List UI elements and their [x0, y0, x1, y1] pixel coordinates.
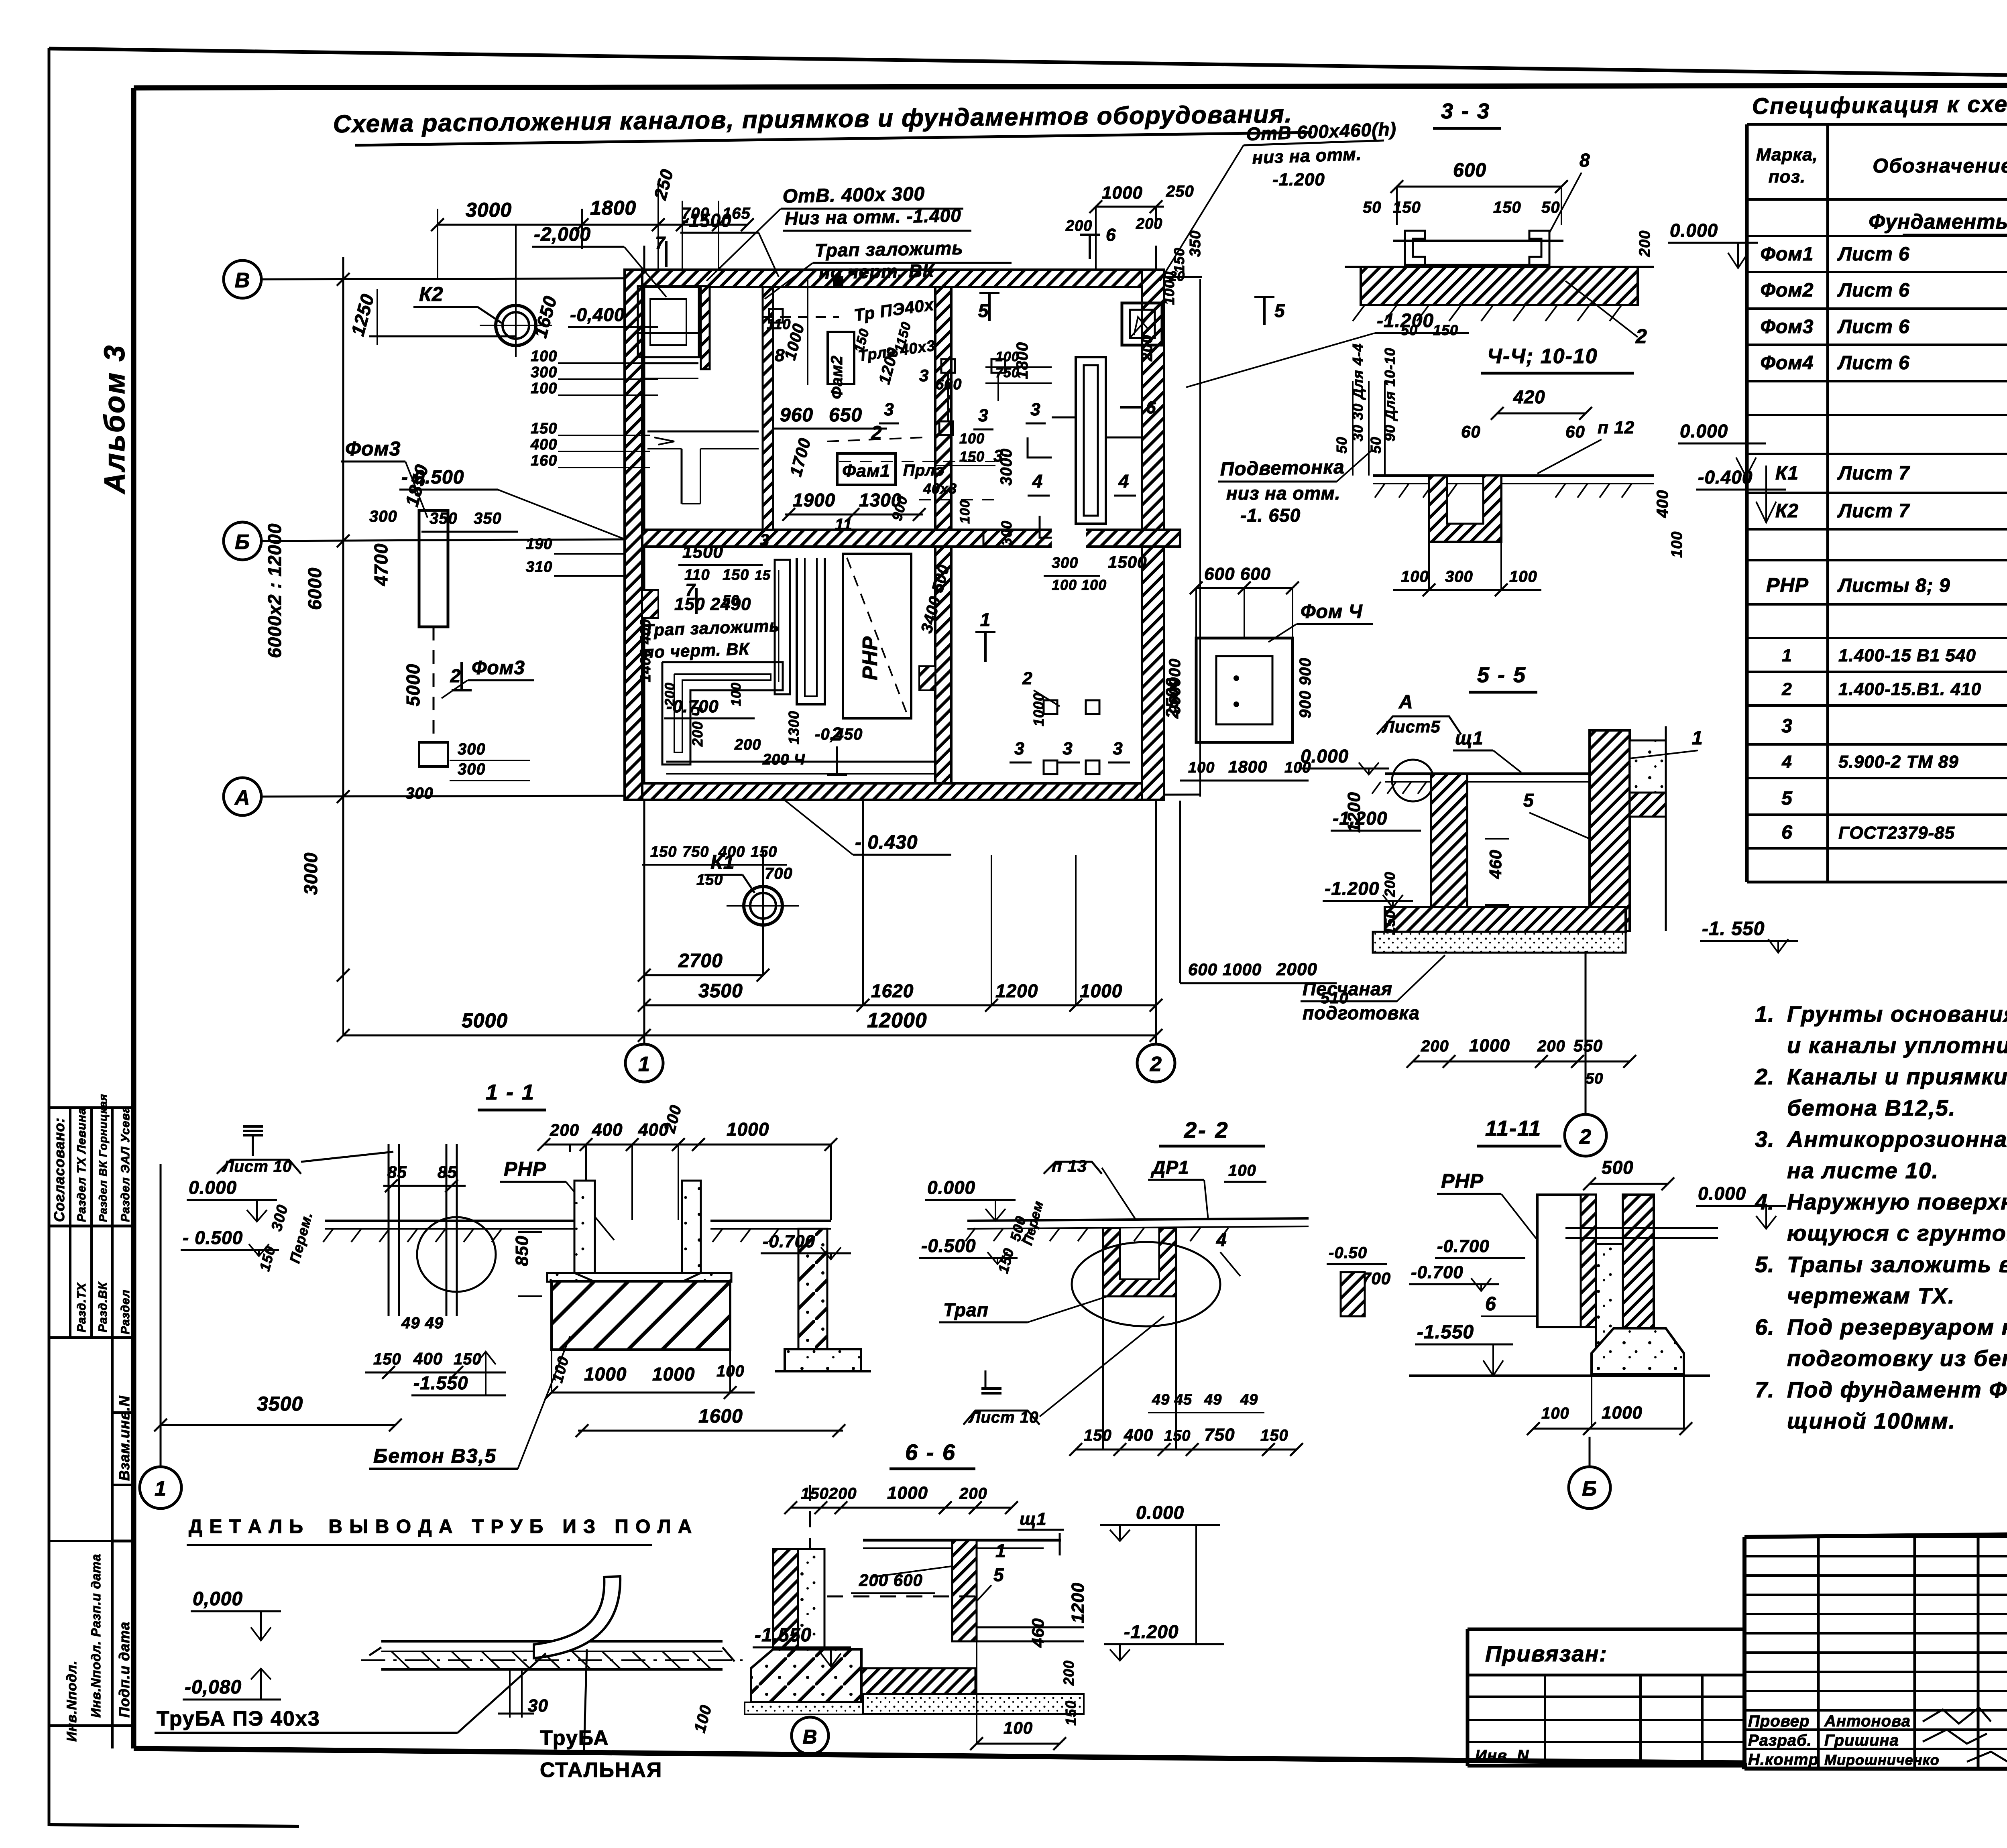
- svg-text:Обозначение: Обозначение: [1873, 155, 2007, 177]
- svg-text:Лист 7: Лист 7: [1837, 463, 1910, 484]
- dim line 2700: [644, 974, 763, 976]
- svg-text:Фом1: Фом1: [1761, 244, 1814, 265]
- svg-text:Трап: Трап: [943, 1299, 989, 1320]
- svg-text:Раздел ТХ Левина: Раздел ТХ Левина: [75, 1108, 88, 1222]
- 6-6 dashed level line: [827, 1596, 975, 1598]
- svg-text:50: 50: [1586, 1070, 1603, 1087]
- 1-1 flag list10: [252, 1136, 254, 1156]
- svg-text:5000: 5000: [462, 1009, 508, 1032]
- svg-text:1000: 1000: [1102, 183, 1143, 203]
- svg-text:2: 2: [871, 423, 882, 444]
- manhole K1: [744, 886, 782, 925]
- svg-text:200: 200: [1637, 230, 1653, 257]
- svg-text:Согласовано:: Согласовано:: [51, 1117, 67, 1222]
- svg-text:200: 200: [1136, 215, 1162, 232]
- svg-text:6: 6: [1485, 1293, 1496, 1315]
- svg-text:Фом4: Фом4: [1761, 352, 1814, 374]
- svg-text:850: 850: [512, 1236, 532, 1266]
- svg-text:бетона В12,5.: бетона В12,5.: [1787, 1095, 1956, 1120]
- 1-1 foundation block: [552, 1281, 730, 1350]
- 3-3 hatch ticks under: [1353, 305, 1365, 321]
- svg-text:на листе 10.: на листе 10.: [1787, 1158, 1939, 1183]
- 6-6 bottom slab band: [751, 1668, 975, 1694]
- svg-text:Прлэ: Прлэ: [903, 461, 945, 479]
- svg-text:750: 750: [1204, 1425, 1235, 1445]
- svg-text:А: А: [1398, 691, 1413, 713]
- 3-3 channels: [1405, 231, 1425, 265]
- 2-2 floor slab: [967, 1218, 1309, 1221]
- svg-text:Лист5: Лист5: [1382, 717, 1441, 736]
- 5-5 sand layer: [1373, 932, 1626, 953]
- svg-text:1900: 1900: [793, 490, 835, 510]
- svg-text:Фам1: Фам1: [842, 461, 890, 481]
- svg-text:5: 5: [1523, 790, 1534, 811]
- svg-text:8: 8: [1580, 150, 1590, 171]
- svg-text:6.: 6.: [1755, 1314, 1775, 1340]
- svg-text:1.400-15 В1 540: 1.400-15 В1 540: [1838, 646, 1976, 665]
- svg-text:1200: 1200: [1344, 792, 1364, 833]
- svg-text:3000: 3000: [466, 199, 512, 221]
- narrow vertical channel lower: [775, 560, 790, 694]
- svg-text:200 Ч: 200 Ч: [762, 751, 805, 768]
- svg-text:50: 50: [1333, 437, 1350, 453]
- svg-text:1500: 1500: [682, 542, 723, 562]
- svg-text:300: 300: [1445, 568, 1473, 586]
- svg-text:Б: Б: [235, 531, 250, 554]
- svg-text:Фом2: Фом2: [1761, 280, 1814, 301]
- svg-text:350: 350: [429, 510, 458, 527]
- svg-text:300: 300: [1052, 555, 1078, 571]
- svg-text:400: 400: [530, 436, 557, 453]
- svg-text:Листы 8; 9: Листы 8; 9: [1837, 575, 1950, 596]
- svg-text:4.: 4.: [1755, 1189, 1775, 1214]
- svg-text:Фом3: Фом3: [1761, 316, 1814, 337]
- svg-text:Трап заложить: Трап заложить: [814, 238, 963, 261]
- svg-text:щ1: щ1: [1020, 1509, 1047, 1529]
- svg-text:2.: 2.: [1755, 1064, 1775, 1089]
- svg-text:1 - 1: 1 - 1: [486, 1080, 535, 1104]
- svg-text:150: 150: [1382, 910, 1398, 935]
- 1-1 tank walls: [574, 1181, 595, 1273]
- fam2 rect: [828, 332, 854, 384]
- axis circle 2: [1137, 1044, 1175, 1082]
- svg-text:В: В: [235, 269, 250, 292]
- svg-text:ОтВ. 400х 300: ОтВ. 400х 300: [782, 183, 925, 207]
- svg-text:Под фундамент Фом 4 выполнить: Под фундамент Фом 4 выполнить подготовку…: [1787, 1377, 2007, 1402]
- svg-text:1000: 1000: [1602, 1403, 1643, 1423]
- svg-text:Наружную поверхность каналов и: Наружную поверхность каналов и приямков,…: [1787, 1189, 2007, 1214]
- svg-text:Лист 6: Лист 6: [1837, 244, 1910, 265]
- svg-text:100: 100: [1401, 568, 1429, 586]
- trap square top right: [1122, 303, 1162, 345]
- svg-text:420: 420: [1513, 386, 1545, 407]
- svg-text:200: 200: [1537, 1037, 1565, 1055]
- svg-text:Инв. N: Инв. N: [1475, 1747, 1529, 1765]
- svg-text:Привязан:: Привязан:: [1485, 1641, 1608, 1666]
- fom4 squares: [1196, 638, 1293, 742]
- svg-text:600 600: 600 600: [1204, 564, 1271, 584]
- svg-text:1000: 1000: [584, 1364, 627, 1384]
- 6-6 footing: [751, 1649, 861, 1702]
- svg-text:2700: 2700: [678, 950, 723, 972]
- svg-text:160: 160: [531, 452, 557, 469]
- svg-text:6 - 6: 6 - 6: [905, 1439, 956, 1465]
- svg-text:1: 1: [638, 1053, 650, 1076]
- svg-text:-1.550: -1.550: [755, 1624, 812, 1646]
- svg-text:100 100: 100 100: [1052, 577, 1107, 593]
- svg-text:50: 50: [1541, 199, 1560, 216]
- svg-text:150: 150: [1493, 199, 1521, 216]
- svg-text:-1.200: -1.200: [1124, 1621, 1179, 1642]
- svg-text:11-11: 11-11: [1485, 1116, 1541, 1141]
- 5-5 right small block: [1630, 740, 1666, 793]
- svg-text:-1.550: -1.550: [413, 1372, 468, 1393]
- channel L lower-left: [662, 662, 783, 764]
- svg-text:3: 3: [760, 531, 769, 549]
- plan middle wall: [625, 530, 1180, 547]
- title block outline: [1744, 1529, 2007, 1537]
- svg-text:1400 400: 1400 400: [637, 619, 653, 682]
- pipe centerline: [361, 1659, 743, 1661]
- svg-text:Трапы заложить в полу и канале: Трапы заложить в полу и канале до бетони…: [1787, 1252, 2007, 1277]
- svg-text:100: 100: [531, 348, 557, 365]
- svg-text:250: 250: [1166, 183, 1194, 200]
- 6-6 axis circle V: [792, 1717, 828, 1754]
- svg-text:150: 150: [1433, 322, 1458, 338]
- svg-text:50: 50: [1363, 199, 1382, 216]
- svg-text:1200: 1200: [1068, 1582, 1088, 1623]
- svg-text:Марка,: Марка,: [1756, 145, 1818, 165]
- svg-text:5: 5: [1781, 788, 1793, 809]
- svg-text:750: 750: [682, 844, 709, 860]
- svg-text:150: 150: [1393, 199, 1421, 216]
- svg-text:12000: 12000: [867, 1009, 927, 1032]
- svg-text:100: 100: [531, 380, 557, 397]
- svg-text:85: 85: [387, 1163, 407, 1181]
- plan partition lower: [935, 547, 951, 783]
- 6-6 V-axis wall: [773, 1549, 798, 1668]
- svg-text:Каналы и приямки под оборудова: Каналы и приямки под оборудование выполн…: [1787, 1064, 2007, 1089]
- svg-text:Лист 10: Лист 10: [222, 1158, 292, 1175]
- svg-text:1800: 1800: [1228, 757, 1267, 776]
- svg-text:-0.400: -0.400: [1698, 467, 1753, 488]
- svg-text:Лист 10: Лист 10: [968, 1409, 1038, 1426]
- svg-text:50: 50: [1401, 322, 1418, 338]
- svg-text:1000: 1000: [727, 1119, 769, 1140]
- 1-1 floor slab lines: [325, 1220, 574, 1222]
- svg-text:110: 110: [684, 567, 710, 583]
- small fixtures: [941, 359, 955, 373]
- svg-text:-1500: -1500: [682, 210, 732, 231]
- svg-text:1: 1: [995, 1540, 1006, 1561]
- svg-text:5: 5: [993, 1564, 1004, 1585]
- svg-text:0.000: 0.000: [1698, 1183, 1746, 1204]
- svg-text:1000: 1000: [652, 1364, 695, 1384]
- svg-text:2: 2: [1150, 1053, 1162, 1076]
- svg-text:150: 150: [1063, 1700, 1079, 1726]
- svg-text:300: 300: [998, 520, 1015, 546]
- svg-text:100: 100: [995, 349, 1020, 364]
- svg-text:1800: 1800: [590, 197, 636, 219]
- tank U lower: [797, 558, 825, 704]
- svg-text:650: 650: [829, 405, 862, 426]
- svg-text:К1: К1: [1775, 463, 1799, 484]
- svg-text:В: В: [802, 1726, 817, 1748]
- 5-5 top slab line: [1385, 773, 1630, 775]
- signature squiggles: [1923, 1708, 1991, 1724]
- outer sheet border bottom-left stub: [50, 1825, 299, 1826]
- svg-text:2000: 2000: [1276, 960, 1317, 979]
- 6-6 channel wall: [952, 1540, 977, 1641]
- 1-1 right pier: [798, 1229, 827, 1349]
- svg-text:1300: 1300: [786, 711, 802, 744]
- 5-5 bottom slab: [1385, 907, 1626, 932]
- channel horizontal upper-left: [642, 362, 698, 364]
- left dim vertical chain: [342, 257, 344, 975]
- svg-text:0.000: 0.000: [1136, 1502, 1184, 1523]
- 2-2 channel: [1103, 1228, 1176, 1296]
- svg-text:150: 150: [696, 872, 723, 888]
- svg-text:900900: 900900: [1166, 659, 1184, 714]
- spec table rows text: [1830, 203, 2007, 233]
- svg-text:-1. 550: -1. 550: [1702, 918, 1765, 939]
- svg-text:300: 300: [458, 760, 486, 778]
- fam3 column rect: [419, 510, 448, 627]
- spec table grid: [1747, 123, 2007, 126]
- hatched strip upper-left: [701, 286, 710, 369]
- svg-text:11: 11: [835, 516, 853, 533]
- svg-text:Провер: Провер: [1748, 1712, 1810, 1730]
- svg-text:200: 200: [1382, 872, 1398, 897]
- plan partition upper: [935, 287, 951, 530]
- 6-6 top slab line: [863, 1539, 1061, 1542]
- svg-text:Лист 6: Лист 6: [1837, 316, 1910, 337]
- svg-text:5.900-2 ТМ 89: 5.900-2 ТМ 89: [1838, 752, 1959, 772]
- 11-11 axis circle B: [1589, 1437, 1591, 1467]
- extra squares upper: [833, 276, 843, 287]
- svg-text:Раздел ВК Горницкая: Раздел ВК Горницкая: [97, 1094, 109, 1222]
- svg-text:1600: 1600: [698, 1406, 743, 1427]
- svg-text:200: 200: [734, 736, 761, 753]
- svg-text:Гришина: Гришина: [1824, 1732, 1899, 1749]
- svg-text:1: 1: [1692, 728, 1703, 749]
- top dim chain line: [438, 224, 747, 226]
- svg-text:СТАЛЬНАЯ: СТАЛЬНАЯ: [540, 1759, 662, 1782]
- svg-text:1: 1: [1782, 646, 1792, 665]
- svg-text:Фам2: Фам2: [828, 355, 846, 399]
- svg-text:200: 200: [1421, 1037, 1449, 1055]
- svg-text:1000: 1000: [1080, 980, 1122, 1001]
- dim line 3500 1620 1200 1000: [644, 1004, 1156, 1006]
- svg-text:ГОСТ2379-85: ГОСТ2379-85: [1838, 823, 1955, 843]
- svg-text:низ на отм.: низ на отм.: [1252, 144, 1362, 168]
- svg-text:Лист 6: Лист 6: [1837, 352, 1910, 374]
- svg-text:150: 150: [1260, 1427, 1288, 1444]
- axis line A: [261, 795, 1200, 797]
- svg-text:3: 3: [1014, 739, 1024, 758]
- svg-text:100: 100: [1003, 1718, 1033, 1737]
- svg-text:Лист 6: Лист 6: [1837, 280, 1910, 301]
- svg-text:Инв.Nподл.: Инв.Nподл.: [64, 1660, 79, 1742]
- svg-text:3500: 3500: [698, 980, 743, 1002]
- 11-11 body: [1537, 1195, 1596, 1327]
- svg-text:3: 3: [1063, 739, 1073, 758]
- svg-text:5: 5: [1274, 300, 1285, 321]
- svg-text:3: 3: [884, 400, 894, 419]
- svg-text:Под резервуаром нейтрализующег: Под резервуаром нейтрализующего раствора…: [1787, 1314, 2007, 1340]
- svg-text:400: 400: [592, 1120, 623, 1140]
- svg-text:200 600: 200 600: [859, 1571, 923, 1590]
- svg-text:0.000: 0.000: [189, 1177, 237, 1198]
- svg-text:1.400-15.В1. 410: 1.400-15.В1. 410: [1838, 679, 1981, 699]
- svg-text:6: 6: [1146, 398, 1156, 417]
- svg-text:К2: К2: [1775, 500, 1799, 522]
- channel loop upper-left room: [638, 286, 699, 357]
- 11-11 ground line: [1409, 1374, 1710, 1377]
- svg-text:чертежам ТХ.: чертежам ТХ.: [1787, 1283, 1955, 1308]
- svg-text:700: 700: [765, 865, 793, 882]
- svg-text:и каналы уплотнить до р = 1,6т: и каналы уплотнить до р = 1,6т/м³: [1787, 1033, 2007, 1058]
- svg-text:п 12: п 12: [1598, 418, 1635, 437]
- svg-text:Д Е Т А Л Ь В Ы В О Д А Т: Д Е Т А Л Ь В Ы В О Д А Т Р У Б И З П О …: [189, 1516, 692, 1537]
- svg-text:3: 3: [1781, 716, 1793, 737]
- svg-text:3: 3: [978, 406, 988, 425]
- svg-text:460: 460: [1028, 1618, 1047, 1648]
- plan top wall: [625, 270, 1164, 287]
- svg-text:400: 400: [413, 1349, 443, 1368]
- svg-text:-1.200: -1.200: [1272, 170, 1325, 189]
- axis 1 vertical line: [643, 246, 645, 1043]
- svg-text:-1.550: -1.550: [1417, 1321, 1474, 1343]
- interior wall upper: [763, 287, 773, 530]
- svg-text:49 49: 49 49: [401, 1314, 444, 1332]
- svg-text:-0.700: -0.700: [763, 1232, 815, 1251]
- svg-text:2- 2: 2- 2: [1184, 1117, 1229, 1143]
- svg-text:60: 60: [1461, 422, 1481, 441]
- svg-text:6000: 6000: [304, 567, 325, 610]
- 4-4 channel U: [1429, 476, 1501, 542]
- svg-text:150: 150: [650, 844, 677, 860]
- svg-text:Б: Б: [1582, 1477, 1597, 1500]
- svg-text:2: 2: [1781, 679, 1792, 699]
- svg-text:100: 100: [1509, 568, 1537, 586]
- svg-text:300: 300: [531, 364, 557, 381]
- axis circle Б: [224, 522, 261, 560]
- svg-text:Подветонка: Подветонка: [1220, 457, 1345, 480]
- svg-text:РНР: РНР: [1766, 574, 1809, 596]
- svg-text:49: 49: [1204, 1391, 1222, 1408]
- svg-text:600: 600: [935, 376, 962, 393]
- svg-text:600: 600: [1453, 160, 1486, 181]
- svg-text:1620: 1620: [871, 980, 914, 1001]
- 5-5 axis circle 2: [1585, 951, 1587, 1114]
- axis circle 1: [625, 1044, 663, 1082]
- plan right wall lower: [1142, 547, 1164, 800]
- svg-text:-1.200: -1.200: [1325, 878, 1379, 899]
- svg-text:Антикоррозионная защита констр: Антикоррозионная защита конструкций разр…: [1786, 1126, 2007, 1152]
- 5-5 trap circle: [1392, 760, 1434, 801]
- axis line B2: [261, 539, 626, 541]
- svg-text:-0,400: -0,400: [570, 304, 625, 325]
- pipe dim 30: [509, 1669, 511, 1718]
- 5-5 right wall: [1590, 730, 1630, 931]
- 1-1 pier columns left: [388, 1144, 390, 1316]
- svg-text:4700: 4700: [370, 543, 391, 586]
- svg-text:49 45: 49 45: [1152, 1391, 1192, 1408]
- svg-text:100: 100: [1228, 1162, 1256, 1179]
- svg-text:3: 3: [919, 366, 929, 385]
- svg-text:150 2490: 150 2490: [674, 594, 751, 614]
- svg-text:100: 100: [1541, 1405, 1569, 1422]
- svg-text:2: 2: [831, 724, 843, 744]
- 2-2 pier right: [1341, 1272, 1365, 1316]
- svg-text:300: 300: [369, 508, 397, 525]
- svg-text:3000: 3000: [300, 852, 321, 895]
- plan right wall upper: [1142, 270, 1164, 530]
- fixture on wall: [769, 309, 783, 323]
- svg-text:150: 150: [1084, 1427, 1112, 1444]
- svg-text:7: 7: [655, 233, 666, 253]
- svg-text:400: 400: [718, 844, 745, 860]
- svg-text:49: 49: [1240, 1391, 1258, 1408]
- svg-text:150: 150: [531, 420, 557, 437]
- svg-text:100: 100: [1188, 759, 1215, 776]
- svg-text:200 Ч: 200 Ч: [689, 706, 706, 747]
- left stamp boxes: [49, 1106, 134, 1109]
- svg-text:960: 960: [780, 405, 813, 426]
- svg-text:Н.контр: Н.контр: [1748, 1751, 1819, 1769]
- svg-text:Фом3: Фом3: [472, 657, 525, 679]
- svg-text:К2: К2: [419, 283, 444, 305]
- svg-text:3: 3: [1113, 739, 1123, 758]
- svg-text:150: 150: [723, 567, 749, 583]
- svg-text:Подп.и дата: Подп.и дата: [116, 1622, 132, 1718]
- svg-text:460: 460: [1486, 850, 1505, 879]
- svg-text:низ на отм.: низ на отм.: [1226, 483, 1340, 504]
- svg-text:200: 200: [959, 1485, 987, 1502]
- svg-text:РНР: РНР: [859, 636, 882, 680]
- outer sheet border top: [49, 49, 2007, 83]
- svg-text:100: 100: [1669, 531, 1685, 558]
- svg-text:щиной 100мм.: щиной 100мм.: [1787, 1408, 1956, 1433]
- svg-text:200: 200: [1060, 1660, 1077, 1686]
- RNR dashed rect: [843, 554, 911, 718]
- axis line B: [261, 277, 1202, 279]
- inner drawing frame: [134, 85, 2007, 88]
- svg-text:4: 4: [1032, 471, 1043, 492]
- svg-text:Альбом 3: Альбом 3: [99, 344, 131, 494]
- svg-text:150: 150: [454, 1350, 482, 1368]
- svg-text:-0.700: -0.700: [1437, 1236, 1490, 1256]
- svg-text:Лист 7: Лист 7: [1837, 500, 1910, 522]
- svg-text:200: 200: [662, 682, 678, 707]
- plan bottom wall: [625, 783, 1164, 800]
- svg-text:300: 300: [405, 785, 434, 802]
- svg-text:-0,080: -0,080: [185, 1677, 242, 1698]
- svg-text:900 900: 900 900: [1297, 657, 1314, 718]
- svg-text:Фундаменты под оборудование.: Фундаменты под оборудование.: [1869, 210, 2007, 234]
- svg-text:150: 150: [373, 1350, 401, 1368]
- T channel upper-left: [647, 431, 759, 433]
- 5-5 left wall: [1431, 774, 1467, 931]
- svg-text:-0.700: -0.700: [1411, 1262, 1464, 1282]
- outer sheet border left: [48, 48, 51, 1826]
- svg-text:200: 200: [550, 1120, 579, 1139]
- svg-text:0.000: 0.000: [1680, 421, 1728, 441]
- svg-text:0.000: 0.000: [927, 1177, 975, 1198]
- svg-text:Раздел: Раздел: [119, 1289, 132, 1334]
- svg-text:ТруБА: ТруБА: [540, 1726, 609, 1750]
